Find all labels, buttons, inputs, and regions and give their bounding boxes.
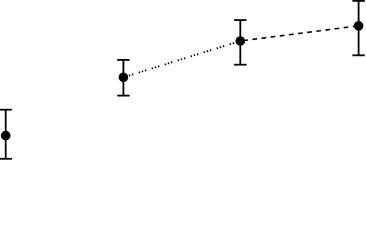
error bar P4 bottom cap bbox=[352, 54, 364, 56]
error bar P1 vertical line bbox=[5, 110, 7, 159]
data point P4 marker bbox=[354, 21, 364, 31]
error bar P1 bottom cap bbox=[0, 158, 12, 160]
error bar P2 vertical line bbox=[122, 60, 124, 96]
error bar P3 bottom cap bbox=[234, 64, 246, 66]
dotted line segment P2-P3 bbox=[123, 41, 240, 77]
error bar P3 vertical line bbox=[239, 20, 241, 65]
error bar P4 top cap bbox=[352, 0, 364, 2]
data point P2 marker bbox=[119, 73, 129, 83]
error bar P2 top cap bbox=[117, 59, 129, 61]
dashed line segment P3-P4 bbox=[240, 26, 358, 41]
error bar P4 vertical line bbox=[358, 1, 360, 55]
error bar P2 bottom cap bbox=[117, 95, 129, 97]
data point P1 marker bbox=[1, 131, 11, 141]
data point P3 marker bbox=[236, 36, 246, 46]
error bar P1 top cap bbox=[0, 109, 12, 111]
error bar P3 top cap bbox=[234, 19, 246, 21]
